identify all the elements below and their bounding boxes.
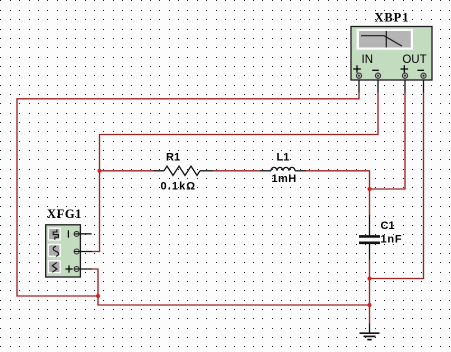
svg-text:OUT: OUT <box>402 54 426 66</box>
svg-text:R1: R1 <box>166 152 180 164</box>
svg-text:1mH: 1mH <box>272 173 297 185</box>
svg-text:XBP1: XBP1 <box>375 11 410 25</box>
svg-text:L1: L1 <box>277 152 290 164</box>
svg-text:0.1kΩ: 0.1kΩ <box>161 181 197 193</box>
svg-text:C1: C1 <box>381 220 395 232</box>
svg-text:XFG1: XFG1 <box>47 207 82 221</box>
svg-text:1nF: 1nF <box>381 234 403 246</box>
svg-text:IN: IN <box>362 54 374 66</box>
